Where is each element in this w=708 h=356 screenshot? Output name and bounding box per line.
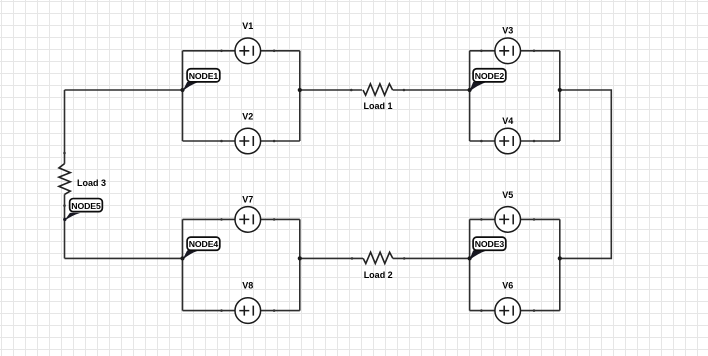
- node NODE5 callout: [63, 199, 102, 222]
- label V1: [242, 21, 253, 31]
- junction: bottom-right loop right: [558, 256, 562, 260]
- voltage source V2: [220, 128, 275, 154]
- label V4: [502, 116, 513, 126]
- svg-text:V6: V6: [502, 280, 513, 290]
- svg-text:NODE4: NODE4: [189, 239, 219, 249]
- svg-text:NODE1: NODE1: [189, 71, 219, 81]
- label V3: [502, 26, 513, 36]
- svg-text:V2: V2: [242, 111, 253, 121]
- voltage source V1: [220, 38, 275, 64]
- node NODE1 callout: [182, 69, 220, 92]
- svg-text:V3: V3: [502, 26, 513, 36]
- svg-text:V7: V7: [242, 195, 253, 205]
- svg-text:NODE2: NODE2: [475, 71, 505, 81]
- resistor Load 1: [350, 84, 405, 95]
- value label Load 2: [364, 270, 393, 280]
- label V6: [502, 280, 513, 290]
- node NODE4 callout: [182, 237, 219, 260]
- svg-text:V5: V5: [502, 190, 513, 200]
- svg-text:V8: V8: [242, 280, 253, 290]
- junction: top-right loop right: [558, 88, 562, 92]
- voltage source V4: [480, 128, 535, 154]
- voltage source V7: [220, 207, 275, 233]
- label V7: [242, 195, 253, 205]
- junction: NODE1 point: [180, 88, 184, 92]
- resistor Load 2: [351, 252, 406, 263]
- junction: bottom-left loop right: [298, 256, 302, 260]
- wire: Load 2 right lead: [393, 257, 470, 259]
- wire: bottom-left loop (V7/V8 parallel pair): [183, 219, 300, 310]
- wire: Load 3 bottom lead down to NODE5 row: [64, 194, 66, 258]
- node NODE3 callout: [469, 237, 506, 260]
- label V2: [242, 111, 253, 121]
- svg-text:Load 2: Load 2: [364, 270, 393, 280]
- wire: Load 1 left lead: [300, 89, 362, 91]
- wire: Load 2 left lead: [300, 257, 363, 259]
- junction: top-left loop right: [298, 88, 302, 92]
- wire: top-right loop (V3/V4 parallel pair): [470, 51, 560, 141]
- junction: NODE2 point: [468, 88, 472, 92]
- wire: bottom-right loop (V5/V6 parallel pair): [470, 219, 560, 310]
- junction: NODE3 point: [468, 256, 472, 260]
- value label Load 1: [363, 101, 392, 111]
- wire: right return (NODE2 row to NODE3 row): [560, 90, 612, 258]
- voltage source V5: [480, 207, 535, 233]
- svg-text:V4: V4: [502, 116, 513, 126]
- wire: left feed from node5 branch to NODE1 junction: [65, 89, 183, 91]
- svg-text:Load 1: Load 1: [363, 101, 392, 111]
- resistor Load 3: [59, 152, 70, 207]
- label V5: [502, 190, 513, 200]
- wire: left branch down to Load 3: [64, 90, 66, 164]
- wire: top-left loop (V1/V2 parallel pair): [183, 51, 300, 141]
- voltage source V8: [220, 298, 275, 324]
- label V8: [242, 280, 253, 290]
- wire: bottom feed from NODE5 column to NODE4 junction: [65, 257, 183, 259]
- wire: Load 1 right lead: [393, 89, 470, 91]
- value label Load 3: [77, 178, 106, 188]
- voltage source V6: [480, 298, 535, 324]
- junction: NODE4 point: [180, 256, 184, 260]
- svg-text:Load 3: Load 3: [77, 178, 106, 188]
- svg-text:NODE3: NODE3: [475, 239, 505, 249]
- voltage source V3: [480, 38, 535, 64]
- svg-text:V1: V1: [242, 21, 253, 31]
- svg-text:NODE5: NODE5: [71, 201, 101, 211]
- node NODE2 callout: [469, 69, 506, 92]
